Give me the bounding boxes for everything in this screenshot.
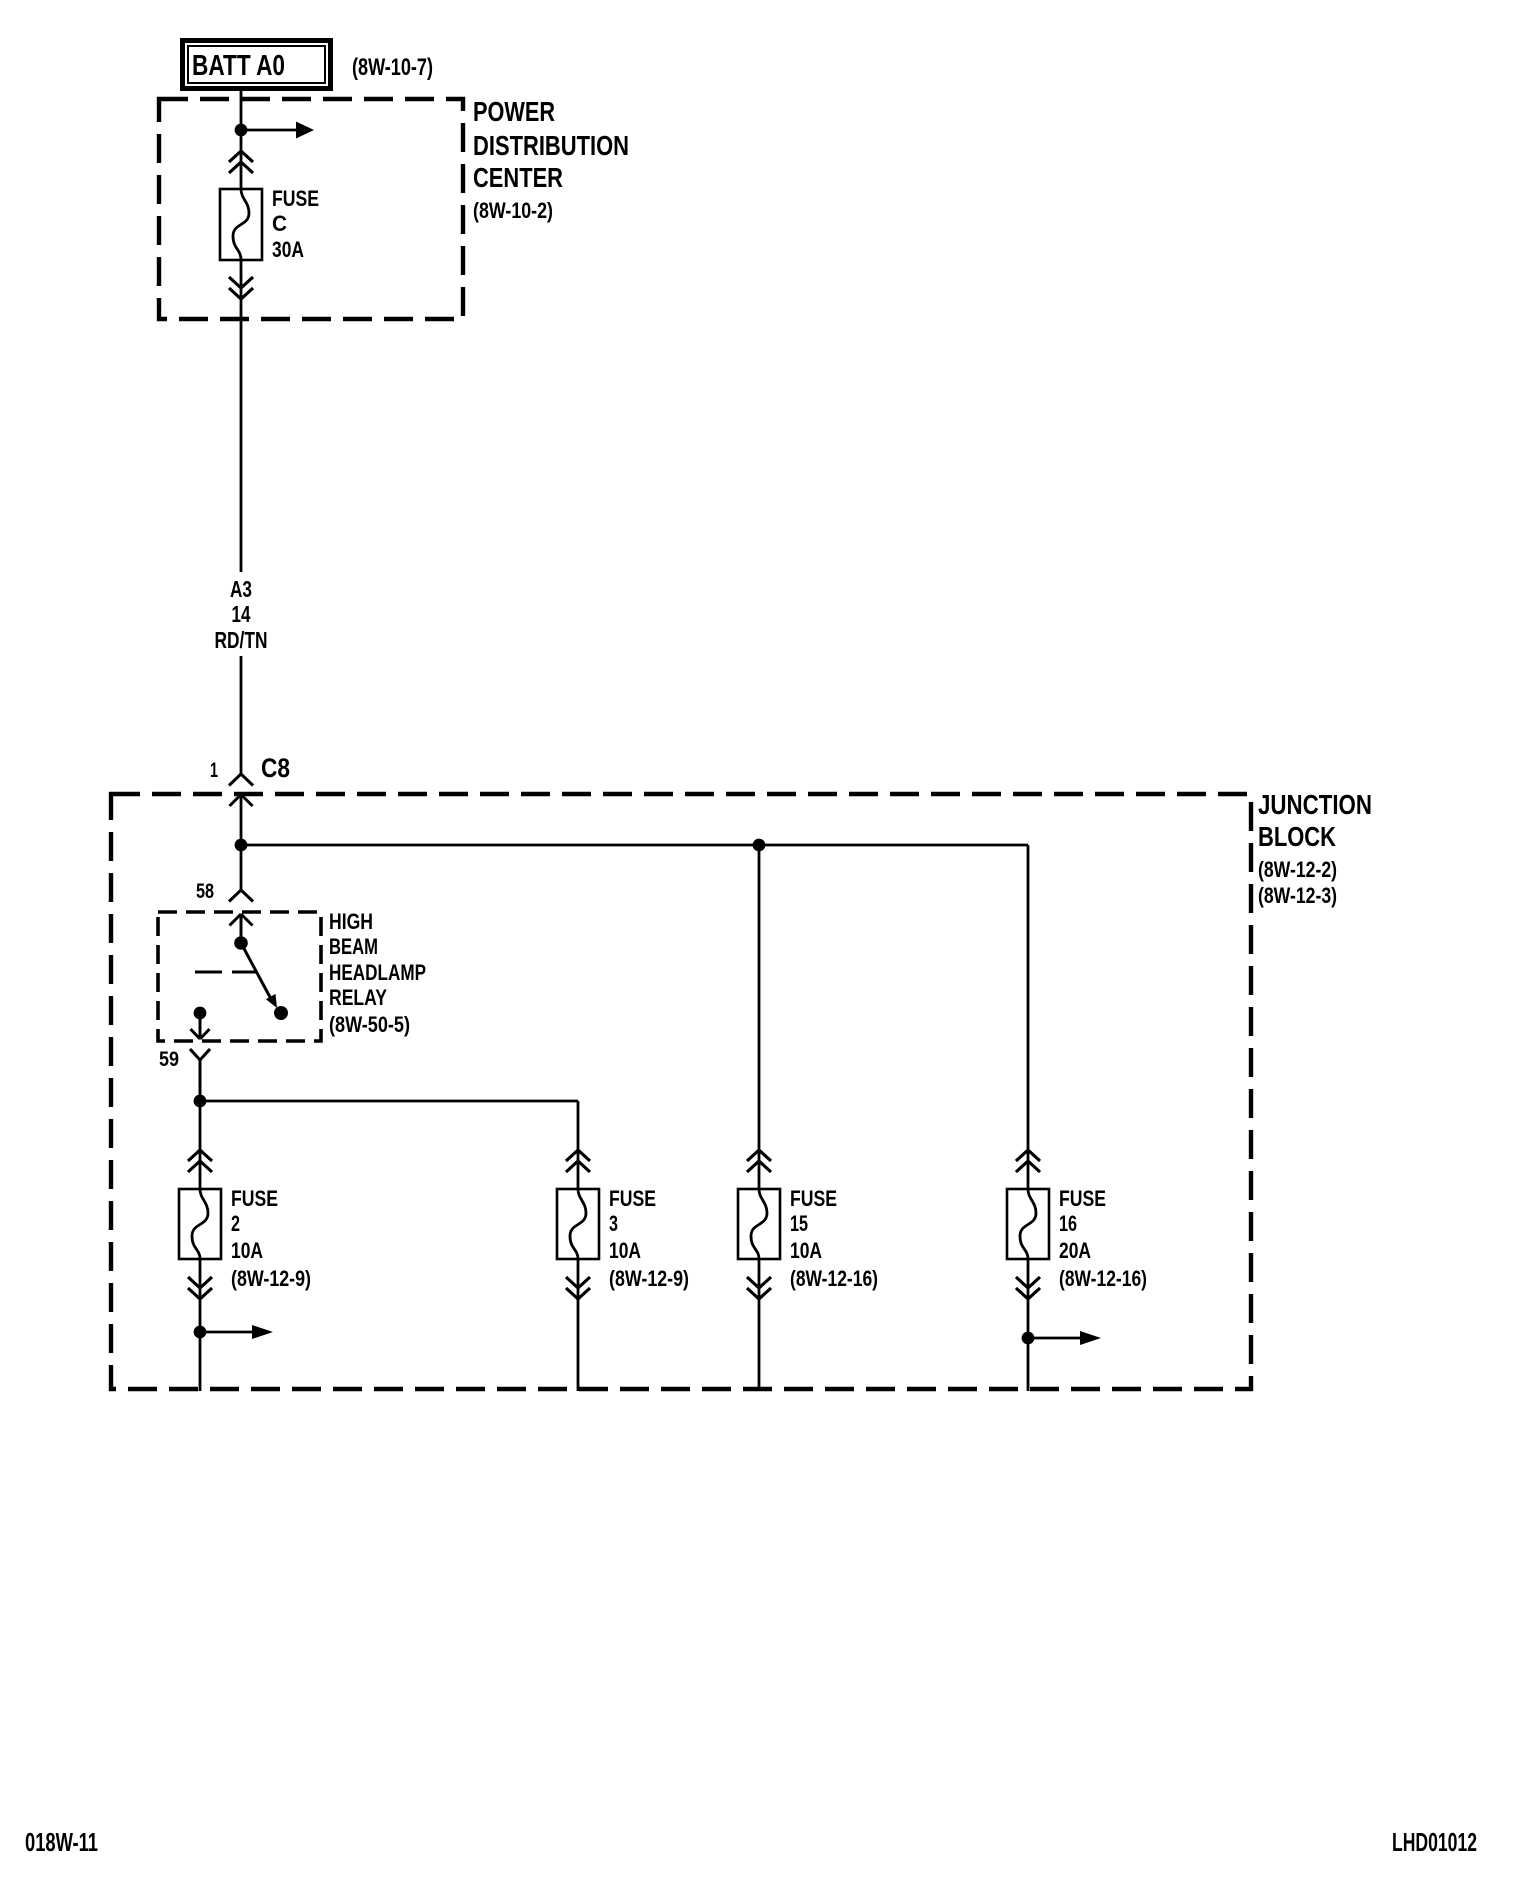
relay linkage dashes [195,971,257,974]
svg-text:(8W-50-5): (8W-50-5) [329,1012,410,1037]
relay switch blade [241,943,277,1008]
svg-text:HEADLAMP: HEADLAMP [329,960,426,985]
wire below fuse 3 [577,1259,580,1391]
svg-text:RELAY: RELAY [329,985,387,1010]
junction block box [111,794,1251,1389]
label wire A3 14 RD/TN [215,576,268,653]
fuse 3 [557,1189,599,1259]
arrow: feed to other circuits [241,122,314,139]
svg-text:CENTER: CENTER [473,162,563,193]
svg-text:018W-11: 018W-11 [25,1827,98,1857]
wire below fuse 16 [1027,1259,1030,1391]
svg-text:DISTRIBUTION: DISTRIBUTION [473,130,629,161]
svg-text:1: 1 [210,759,218,782]
svg-text:(8W-10-2): (8W-10-2) [473,198,553,223]
svg-text:16: 16 [1059,1211,1077,1236]
wire: horizontal to fuse 3 [200,1100,578,1103]
svg-text:JUNCTION: JUNCTION [1258,789,1372,820]
svg-text:BATT A0: BATT A0 [192,50,285,82]
svg-text:LHD01012: LHD01012 [1392,1827,1477,1857]
relay pin 59 connector (female half) [190,1049,210,1101]
label FUSE 16 20A (8W-12-16) [1059,1186,1147,1291]
svg-text:59: 59 [159,1048,179,1071]
svg-text:(8W-12-16): (8W-12-16) [790,1266,878,1291]
svg-text:30A: 30A [272,237,304,262]
relay pin 58 connector (female half) [229,890,253,902]
svg-text:58: 58 [196,880,214,903]
connector chevrons below fuse 3 [566,1277,590,1299]
svg-text:FUSE: FUSE [790,1186,837,1211]
svg-text:(8W-10-7): (8W-10-7) [352,54,433,81]
arrow: fuse 16 feed to other circuits [1028,1331,1101,1345]
battery feed box BATT A0 [183,41,331,89]
svg-text:HIGH: HIGH [329,909,373,934]
high beam headlamp relay box [158,912,321,1041]
wire from bus node down to relay pin 58 [240,845,243,890]
wire below fuse 2 [199,1259,202,1391]
connector chevrons above fuse 16 [1016,1150,1040,1172]
label pin 59 [159,1048,179,1071]
sheet number 018W-11 [25,1827,98,1857]
svg-text:(8W-12-3): (8W-12-3) [1258,883,1337,908]
fuse 15 [738,1189,780,1259]
connector chevrons above fuse 15 [747,1150,771,1172]
fuse 2 [179,1189,221,1259]
svg-text:C8: C8 [261,753,290,783]
svg-text:10A: 10A [790,1238,822,1263]
wire down to fuse 16 [1027,845,1030,1189]
label JUNCTION BLOCK (8W-12-2) (8W-12-3) [1258,789,1372,908]
svg-text:FUSE: FUSE [272,186,319,211]
node: junction block feed [235,839,248,852]
label pin 58 [196,880,214,903]
svg-text:10A: 10A [231,1238,263,1263]
connector chevrons above fuse 3 [566,1150,590,1172]
svg-text:2: 2 [231,1211,240,1236]
svg-text:3: 3 [609,1211,618,1236]
connector chevrons below fuse 2 [188,1277,212,1299]
wire A3 lower segment [240,656,243,774]
fuse C [220,189,262,260]
relay normally-open contact node [274,1006,288,1020]
svg-text:BEAM: BEAM [329,934,378,959]
relay common contact node [234,936,248,950]
relay output contact node [194,1007,207,1020]
node: fuse 16 output tap [1022,1332,1035,1345]
connector chevrons below fuse C [229,277,253,299]
arrow: fuse 2 feed to other circuits [200,1325,273,1339]
svg-text:(8W-12-2): (8W-12-2) [1258,857,1337,882]
relay pin 58 connector (male half) [230,914,253,943]
node: tap to fuse 2 / fuse 3 [194,1095,207,1108]
svg-text:FUSE: FUSE [1059,1186,1106,1211]
label pin 1 [210,759,218,782]
wire: horizontal bus to fuses 15 and 16 [241,844,1028,847]
svg-text:(8W-12-9): (8W-12-9) [609,1266,689,1291]
svg-text:10A: 10A [609,1238,641,1263]
relay pin 59 connector (male half, arrow down) [191,1013,210,1039]
wire down to fuse 15 [758,845,761,1189]
node: PDC feed junction [235,124,248,137]
wire below fuse 15 [758,1259,761,1391]
wire A3 upper segment [240,260,243,572]
svg-text:14: 14 [232,601,251,627]
power distribution center box [159,99,463,319]
connector chevrons below fuse 16 [1016,1277,1040,1299]
svg-text:RD/TN: RD/TN [215,627,268,653]
svg-text:(8W-12-9): (8W-12-9) [231,1266,311,1291]
wire from BATT A0 down to node [240,91,243,189]
label POWER DISTRIBUTION CENTER (8W-10-2) [473,96,629,223]
svg-text:C: C [272,211,287,236]
label connector C8 [261,753,290,783]
label FUSE C 30A [272,186,319,262]
svg-text:15: 15 [790,1211,808,1236]
svg-text:20A: 20A [1059,1238,1091,1263]
label FUSE 15 10A (8W-12-16) [790,1186,878,1291]
label FUSE 2 10A (8W-12-9) [231,1186,311,1291]
svg-text:A3: A3 [230,576,252,602]
svg-text:FUSE: FUSE [231,1186,278,1211]
label FUSE 3 10A (8W-12-9) [609,1186,689,1291]
connector chevrons above fuse C [229,151,253,173]
label HIGH BEAM HEADLAMP RELAY (8W-50-5) [329,909,426,1037]
connector C8 pin 1 (female half) [229,774,253,786]
wire down to fuse 2 [199,1101,202,1189]
node: fuse 2 output tap [194,1326,207,1339]
svg-text:POWER: POWER [473,96,555,127]
connector chevrons below fuse 15 [747,1277,771,1299]
wire down to fuse 3 [577,1101,580,1189]
connector C8 pin 1 (male half) [230,795,253,846]
svg-text:BLOCK: BLOCK [1258,821,1336,852]
svg-text:FUSE: FUSE [609,1186,656,1211]
connector chevrons above fuse 2 [188,1150,212,1172]
svg-text:(8W-12-16): (8W-12-16) [1059,1266,1147,1291]
fuse 16 [1007,1189,1049,1259]
label (8W-10-7) [352,54,433,81]
node: tap to fuse 15 [753,839,766,852]
drawing id LHD01012 [1392,1827,1477,1857]
